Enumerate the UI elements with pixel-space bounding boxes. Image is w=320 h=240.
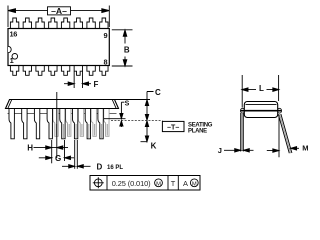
top view top pins <box>10 18 108 29</box>
seating plane datum box <box>162 121 184 131</box>
dimension A extension lines <box>8 6 109 28</box>
dimension S <box>121 102 124 113</box>
angled lead <box>280 114 291 153</box>
side view back pins <box>53 109 109 137</box>
dimension C <box>147 92 154 121</box>
svg-text:1: 1 <box>10 56 14 65</box>
svg-text:16 PL: 16 PL <box>107 165 123 171</box>
index notch <box>8 46 11 52</box>
svg-text:M: M <box>302 143 308 152</box>
dimension M arrows <box>267 148 299 150</box>
end view body seam <box>246 103 277 105</box>
parting line <box>241 110 282 112</box>
end view right tab <box>278 108 282 113</box>
svg-text:C: C <box>155 88 161 97</box>
dimension H lines <box>51 140 53 163</box>
body far rim <box>8 113 117 115</box>
centerline <box>56 92 58 158</box>
end view body <box>244 102 277 118</box>
dimension H arrows <box>34 147 69 149</box>
dimension G arrows <box>39 157 74 159</box>
svg-text:D: D <box>97 163 103 172</box>
svg-text:A: A <box>183 179 188 188</box>
M circle 2 <box>190 179 198 187</box>
svg-text:SEATING: SEATING <box>188 122 213 128</box>
dimension B line <box>124 30 126 66</box>
body top extension line <box>115 99 151 101</box>
side view front pins <box>9 109 103 139</box>
end view left tab <box>241 108 245 113</box>
svg-text:L: L <box>259 84 264 93</box>
top view bottom pins <box>10 66 108 76</box>
position symbol <box>94 179 102 187</box>
seating plane line <box>111 120 162 122</box>
svg-text:K: K <box>151 141 157 150</box>
dimension J <box>224 149 254 151</box>
M circle 1 <box>155 179 163 187</box>
feature control frame <box>90 176 200 191</box>
end view L extension lines <box>242 75 278 108</box>
svg-text:0.25 (0.010): 0.25 (0.010) <box>112 179 151 188</box>
svg-text:T: T <box>171 179 176 188</box>
side view body <box>6 100 119 109</box>
svg-text:16: 16 <box>10 30 18 39</box>
dimension F lines <box>74 72 82 89</box>
dimension B extension lines <box>112 30 133 66</box>
svg-text:9: 9 <box>103 31 107 40</box>
dimension F arrows <box>64 83 91 85</box>
svg-text:PLANE: PLANE <box>188 129 207 135</box>
svg-text:–T–: –T– <box>167 124 179 131</box>
svg-text:M: M <box>192 181 197 187</box>
svg-text:8: 8 <box>103 58 107 67</box>
top view body <box>8 29 109 66</box>
svg-text:S: S <box>125 101 130 108</box>
svg-text:F: F <box>94 80 99 89</box>
dimension D arrows <box>62 165 91 167</box>
pin1 circle <box>12 54 18 60</box>
dimension A line <box>8 10 109 12</box>
M reference line <box>278 115 280 158</box>
svg-text:–A–: –A– <box>51 6 67 16</box>
shoulder bottom extension line <box>104 118 126 120</box>
svg-text:H: H <box>27 144 33 153</box>
dimension G lines <box>64 140 66 161</box>
dimension L arrows <box>242 89 279 91</box>
svg-text:G: G <box>55 154 61 163</box>
dimension K <box>141 121 148 142</box>
left lead <box>241 113 243 151</box>
dimension D lines <box>75 140 78 169</box>
leg shading <box>57 124 108 138</box>
svg-text:B: B <box>124 46 130 55</box>
dimension A box <box>48 7 71 15</box>
svg-text:M: M <box>156 181 161 187</box>
svg-text:J: J <box>218 146 222 155</box>
